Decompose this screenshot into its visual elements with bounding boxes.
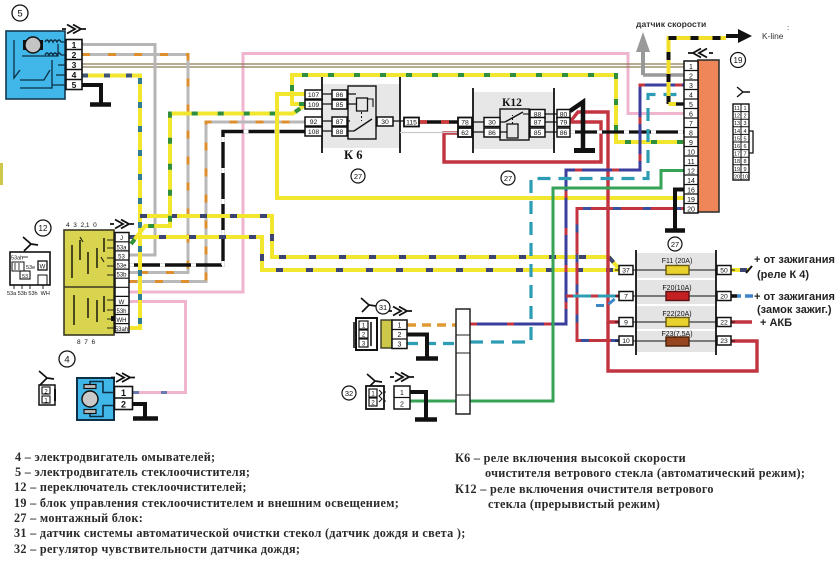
svg-text:108: 108 — [308, 129, 320, 136]
svg-text:86: 86 — [336, 92, 344, 99]
svg-text:12 – переключатель стеклоочист: 12 – переключатель стеклоочистителей; — [14, 480, 247, 494]
sensor 31 pins 1-3 — [392, 320, 407, 349]
svg-text:13: 13 — [734, 121, 740, 127]
svg-text:85: 85 — [336, 102, 344, 109]
relay K12 pin 78 — [458, 118, 472, 127]
relay K6 pin 92 — [305, 117, 322, 126]
svg-text:20: 20 — [687, 206, 695, 213]
svg-text:11: 11 — [734, 106, 740, 112]
svg-text:62: 62 — [461, 130, 469, 137]
svg-text:4: 4 — [743, 129, 746, 135]
block 19 (wiper/light control unit) — [698, 60, 719, 212]
wire red loop: relay K12 pin 62 to pin 79 — [444, 122, 601, 162]
svg-text:6: 6 — [743, 144, 746, 150]
svg-text:53h: 53h — [116, 309, 126, 315]
svg-text:1: 1 — [689, 64, 693, 71]
svg-text:1: 1 — [72, 40, 77, 50]
relay K12 pin 30 — [484, 118, 500, 127]
washer 4 connector icon — [39, 371, 55, 405]
sensor 31 (rain sensor) connector icon — [354, 298, 377, 350]
ground of washer motor 4 — [132, 404, 145, 417]
svg-text:109: 109 — [308, 102, 320, 109]
wire gray-orange: motor 5 pin 2 to switch pin 53b — [82, 55, 188, 273]
wire thin stub near relay K12 pin 62 — [400, 132, 458, 134]
svg-text:7: 7 — [743, 152, 746, 158]
svg-text:10: 10 — [622, 338, 630, 345]
ground of motor 5 — [82, 85, 101, 103]
svg-text:K-line: K-line — [762, 31, 784, 41]
connector symbol above washer 4 pins — [111, 373, 135, 382]
legend text block — [14, 450, 805, 556]
wire gray-orange: switch pin to relay K6 pin 92 — [129, 122, 305, 282]
svg-text:20: 20 — [734, 174, 740, 180]
relay K6 pin 108 — [305, 127, 322, 136]
svg-text:15: 15 — [734, 136, 740, 142]
svg-text:4: 4 — [72, 70, 77, 80]
wire yellow-blue stub: fuse pin 50 — [731, 268, 749, 272]
svg-text:53: 53 — [22, 274, 28, 280]
wire yellow-blue branch: to fuse pin 37 upper bus — [140, 216, 619, 269]
svg-text:87: 87 — [534, 120, 542, 127]
svg-text:32: 32 — [345, 389, 353, 398]
svg-text:5: 5 — [72, 80, 77, 90]
switch 12 pin column — [111, 233, 129, 334]
svg-text:53ah: 53ah — [115, 327, 128, 333]
wire blue dashed stub: fuse pin 20 — [731, 294, 753, 297]
svg-text:18: 18 — [734, 159, 740, 165]
svg-text:19: 19 — [734, 167, 740, 173]
svg-text:6: 6 — [689, 111, 693, 118]
relay K6 pin 86 — [332, 90, 347, 99]
svg-text:5 – электродвигатель стеклоочи: 5 – электродвигатель стеклоочистителя; — [15, 465, 250, 479]
svg-text:стекла (прерывистый режим): стекла (прерывистый режим) — [488, 497, 660, 511]
wire black-white: switch pin 53e to relay K6 pin 108 — [129, 132, 305, 266]
relay K12 pin 86 outer — [557, 128, 570, 137]
relay K12 pin 85 — [530, 128, 545, 137]
wire yellow-blue: switch pin J to fuse pin 37 lower bus — [129, 237, 619, 270]
svg-text:1: 1 — [743, 106, 746, 112]
wire yellow-black K-line: block 19 pin 5 — [669, 38, 727, 104]
regulator 32 pins 1-2 — [394, 386, 410, 409]
circled 5 designator — [12, 5, 28, 21]
svg-text:53a: 53a — [116, 245, 127, 251]
svg-text:4 3 2,1 0: 4 3 2,1 0 — [66, 222, 97, 229]
svg-text:107: 107 — [308, 92, 320, 99]
svg-text:53b: 53b — [116, 273, 127, 279]
svg-text:19 – блок управления стеклоочи: 19 – блок управления стеклоочистителем и… — [14, 496, 399, 510]
svg-text:1: 1 — [121, 388, 126, 398]
svg-text:4 – электродвигатель омывателе: 4 – электродвигатель омывателей; — [15, 450, 215, 464]
wire green: regulator 32 pin 2 to block 19 pin 12 — [410, 171, 684, 402]
switch 12 (wiper switch) body — [64, 230, 114, 335]
svg-text:88: 88 — [336, 129, 344, 136]
relay K12 pin 86 inner — [484, 128, 500, 137]
node edge-mark left — [0, 163, 3, 185]
block 19 pinout table — [733, 104, 753, 180]
connector Y symbol right of block 19 — [737, 87, 750, 97]
svg-text::: : — [787, 23, 789, 32]
svg-text:очистителя ветрового стекла (а: очистителя ветрового стекла (автоматичес… — [485, 466, 805, 480]
wire blue dashed stub at fuse pin 7 — [596, 297, 617, 306]
svg-text:19: 19 — [687, 197, 695, 204]
ground of relay K12 pin 80 — [570, 102, 583, 149]
wire red: relay K12 pin 79 to fuse pin 9 and pin 23 loop — [570, 112, 619, 322]
relay K6 pin 85 — [332, 100, 347, 109]
svg-text:20: 20 — [720, 294, 728, 301]
wire yellow solid: relay K6 pin 107 to block 19 pin 19 — [277, 94, 684, 198]
svg-text:датчик скорости: датчик скорости — [636, 19, 706, 29]
svg-text:8 7 6: 8 7 6 — [77, 339, 95, 346]
svg-text:53ah: 53ah — [11, 256, 23, 262]
circled 4 designator — [59, 351, 75, 367]
fuse pin 37 — [619, 266, 633, 275]
svg-text:22: 22 — [720, 320, 728, 327]
svg-text:12: 12 — [39, 224, 48, 233]
fuse pin 50 — [717, 266, 731, 275]
svg-text:27 – монтажный блок:: 27 – монтажный блок: — [14, 511, 143, 525]
svg-text:78: 78 — [461, 120, 469, 127]
wire yellow-green: relay K6 pin 109 to block 19 pin 9 — [292, 75, 684, 142]
fuse pin 23 — [717, 336, 731, 345]
svg-text:2: 2 — [72, 50, 77, 60]
circled 31 designator — [376, 300, 390, 314]
circled 27 (montage block, below block 19 ground) — [668, 237, 682, 251]
wire teal dashed: sensor 31 pin 3 stub to connector bar — [407, 342, 456, 345]
ground of block 19 pin 16 — [675, 190, 684, 230]
washer motor 4 body — [77, 378, 114, 420]
svg-text:30: 30 — [381, 119, 389, 126]
connector symbol above switch 12 pins — [110, 220, 134, 229]
svg-text:27: 27 — [354, 172, 362, 181]
svg-text:3: 3 — [398, 342, 402, 349]
fuse pin 20 — [717, 292, 731, 301]
relay K6 pin 87 — [332, 117, 347, 126]
speed sensor arrow — [641, 50, 645, 75]
svg-text:87: 87 — [336, 119, 344, 126]
svg-text:7: 7 — [689, 121, 693, 128]
wire yellow-blue: motor 5 pin 4 down to switch pin 53ah — [82, 76, 140, 329]
circled 19 designator — [731, 53, 746, 68]
svg-text:3: 3 — [72, 60, 77, 70]
svg-text:2: 2 — [689, 73, 693, 80]
svg-text:(замок зажиг.): (замок зажиг.) — [757, 304, 832, 316]
svg-text:85: 85 — [534, 130, 542, 137]
motor 5 connector pins 1-5 — [66, 40, 82, 91]
wire indigo-red: sensor 31 pin 1 to block 19 pin 3 — [470, 85, 684, 324]
svg-text:WH: WH — [117, 318, 127, 324]
svg-text:J: J — [120, 236, 123, 242]
svg-text:11: 11 — [687, 159, 694, 166]
svg-text:10: 10 — [687, 149, 695, 156]
svg-text:2: 2 — [400, 402, 404, 409]
svg-text:8: 8 — [689, 130, 693, 137]
fuse pin 7 — [619, 292, 633, 301]
circled 27 (K12) — [501, 171, 515, 185]
fuse box (montage block 27) — [615, 250, 735, 355]
connector symbol above sensor 31 pins — [388, 307, 412, 316]
svg-text:17: 17 — [734, 152, 740, 158]
svg-text:К 6: К 6 — [344, 148, 362, 162]
svg-text:86: 86 — [560, 130, 568, 137]
svg-text:9: 9 — [689, 140, 693, 147]
svg-text:16: 16 — [734, 144, 740, 150]
svg-text:5: 5 — [17, 9, 22, 20]
svg-text:27: 27 — [671, 240, 679, 249]
svg-text:12: 12 — [734, 114, 740, 120]
svg-text:53a 53b 53h WH: 53a 53b 53h WH — [7, 291, 50, 297]
relay K6 pin 107 — [305, 90, 322, 99]
regulator 32 connector icon — [366, 374, 386, 409]
svg-text:10: 10 — [742, 174, 748, 180]
svg-text:1: 1 — [398, 323, 402, 330]
svg-text:4: 4 — [689, 92, 693, 99]
svg-text:F11 (20A): F11 (20A) — [662, 258, 693, 265]
svg-text:3: 3 — [743, 121, 746, 127]
svg-text:+ от зажигания: + от зажигания — [754, 254, 835, 266]
svg-text:9: 9 — [743, 167, 746, 173]
switch 12 pin diagram table — [7, 237, 50, 297]
ground of regulator 32 pin 1 — [410, 392, 426, 418]
connector symbol above motor 5 pins — [62, 25, 86, 34]
motor 5 (wiper motor) body — [6, 31, 66, 99]
svg-text:W: W — [119, 300, 125, 306]
circled 12 designator — [35, 220, 51, 236]
svg-text:53e: 53e — [26, 265, 35, 271]
relay K12 pin 87 — [530, 118, 545, 127]
relay K6 pin 115 — [404, 118, 419, 127]
connector symbol left of block 19 — [688, 49, 713, 58]
relay K6 pin 88 — [332, 127, 347, 136]
svg-text:31 – датчик системы автоматиче: 31 – датчик системы автоматической очист… — [14, 526, 466, 540]
wire red stub: fuse pin 22 to +AKB — [731, 320, 752, 324]
svg-text:30: 30 — [488, 120, 496, 127]
svg-text:23: 23 — [720, 338, 728, 345]
svg-text:7: 7 — [624, 294, 628, 301]
relay K12 pin 88 — [530, 110, 545, 119]
fuse pin 22 — [717, 318, 731, 327]
connector symbol above regulator 32 pins — [390, 373, 414, 382]
wire black-red: relay K6 pin 115 to relay K12 pin 78 — [419, 120, 458, 124]
svg-text:2: 2 — [398, 332, 402, 339]
washer motor 4 pins 1-2 — [115, 387, 133, 410]
svg-text:92: 92 — [310, 119, 318, 126]
svg-text:К6 – реле включения высокой ск: К6 – реле включения высокой скорости — [455, 451, 686, 465]
svg-text:+ АКБ: + АКБ — [760, 317, 792, 329]
wire teal dashed: sensor 31 pin 3 to block 19 pin 4 — [470, 95, 684, 343]
svg-text:19: 19 — [734, 56, 743, 65]
svg-text:32 – регулятор чувствительност: 32 – регулятор чувствительности датчика … — [14, 542, 300, 556]
svg-text:+ от зажигания: + от зажигания — [754, 291, 835, 303]
wire orange dashed: sensor 31 pin 1 stub to connector bar — [407, 323, 456, 326]
K-line arrow — [726, 34, 744, 38]
connector bar (white strip) — [456, 309, 470, 414]
svg-text:31: 31 — [379, 303, 387, 312]
wire red-blue: fuse pin 10 to block 19 pin 20 — [577, 209, 684, 341]
svg-text:2: 2 — [743, 114, 746, 120]
wire yellow-green: switch pin 53a to relay K6 pin 109 — [131, 105, 305, 244]
block 19 pin column 1-20 — [684, 61, 698, 213]
relay K6 pin 109 — [305, 100, 322, 109]
fuse pin 10 — [619, 336, 633, 345]
svg-text:3: 3 — [689, 83, 693, 90]
svg-text:К12 – реле включения очистител: К12 – реле включения очистителя ветровог… — [455, 482, 714, 496]
relay K6 block — [321, 77, 404, 153]
svg-text:115: 115 — [406, 120, 417, 127]
relay K12 block — [471, 88, 557, 153]
wire pink loop: switch 12 to block 19 pin 6 — [129, 54, 684, 293]
wire teal-red: to fuse pin 7 — [566, 295, 619, 298]
svg-text:9: 9 — [624, 320, 628, 327]
wire pink: switch W to washer motor pin 1 — [129, 302, 186, 393]
svg-text:5: 5 — [689, 102, 693, 109]
svg-text:1: 1 — [400, 390, 404, 397]
svg-text:14: 14 — [734, 129, 740, 135]
relay K12 pin 62 — [458, 128, 472, 137]
svg-text:W: W — [40, 265, 46, 271]
svg-text:53e: 53e — [116, 264, 127, 270]
svg-text:27: 27 — [504, 174, 512, 183]
circled 32 designator — [342, 386, 356, 400]
svg-text:37: 37 — [622, 268, 630, 275]
svg-text:(реле К 4): (реле К 4) — [757, 269, 809, 281]
svg-text:16: 16 — [687, 187, 695, 194]
svg-text:2: 2 — [121, 400, 126, 410]
fuse pin 9 — [619, 318, 633, 327]
relay K12 pin 79 — [557, 118, 570, 127]
svg-text:14: 14 — [687, 178, 695, 185]
wire black-white: relay K12 pin 86 to block 19 pin 8 — [570, 130, 684, 133]
svg-text:К12: К12 — [502, 97, 522, 109]
svg-text:12: 12 — [687, 168, 695, 175]
wire thin brown pair: motor 5 pin 3 to block 19 pin 1 — [82, 63, 684, 65]
circled 27 (K6) — [351, 169, 365, 183]
svg-text:5: 5 — [743, 136, 746, 142]
wire gray: motor 5 pin 1 to switch pin 53 — [82, 45, 155, 256]
relay K12 pin 80 — [557, 110, 570, 119]
relay K6 pin 30 — [377, 117, 393, 126]
svg-text:53: 53 — [118, 254, 125, 260]
ground of sensor 31 pin 2 — [407, 335, 427, 358]
svg-text:86: 86 — [488, 130, 496, 137]
svg-text:50: 50 — [720, 268, 728, 275]
svg-text:4: 4 — [64, 355, 69, 366]
svg-text:8: 8 — [743, 159, 746, 165]
svg-text:79: 79 — [560, 120, 568, 127]
sensor 31 body — [381, 320, 392, 348]
